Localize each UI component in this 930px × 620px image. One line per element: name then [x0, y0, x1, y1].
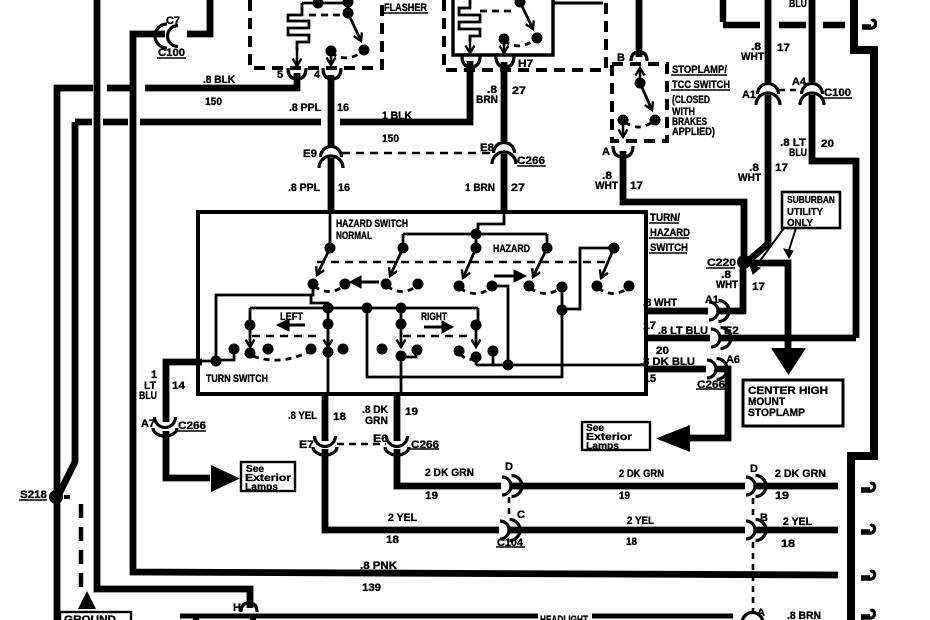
svg-text:ONLY: ONLY: [787, 217, 813, 229]
svg-text:HAZARD: HAZARD: [493, 243, 530, 255]
svg-text:WHT: WHT: [741, 51, 764, 63]
svg-text:BLU: BLU: [789, 0, 807, 10]
svg-text:A: A: [757, 607, 765, 619]
svg-text:B: B: [760, 512, 768, 524]
svg-text:E9: E9: [303, 148, 317, 160]
svg-text:STOPLAMP: STOPLAMP: [748, 407, 805, 419]
svg-text:1 BLK: 1 BLK: [382, 110, 412, 122]
svg-text:18: 18: [333, 411, 346, 423]
svg-text:D: D: [505, 461, 513, 473]
svg-text:16: 16: [337, 102, 349, 114]
svg-text:E2: E2: [724, 325, 739, 337]
svg-text:18: 18: [781, 538, 795, 550]
svg-text:B: B: [617, 52, 625, 64]
svg-text:TURN SWITCH: TURN SWITCH: [206, 373, 268, 385]
svg-text:H7: H7: [518, 58, 533, 70]
svg-text:4: 4: [314, 69, 321, 81]
svg-text:2 YEL: 2 YEL: [783, 516, 812, 528]
svg-text:19: 19: [619, 490, 630, 502]
svg-text:17: 17: [777, 42, 790, 54]
svg-text:17: 17: [643, 320, 656, 332]
svg-text:A7: A7: [141, 418, 155, 430]
svg-text:NORMAL: NORMAL: [336, 230, 372, 242]
svg-text:BLU: BLU: [139, 390, 157, 402]
svg-text:.8 BLK: .8 BLK: [203, 74, 235, 86]
svg-text:WHT: WHT: [595, 180, 618, 192]
svg-text:D: D: [750, 463, 758, 475]
svg-text:E6: E6: [373, 433, 388, 445]
svg-text:16: 16: [338, 182, 350, 194]
svg-text:19: 19: [425, 490, 438, 502]
svg-text:A1: A1: [742, 89, 756, 101]
svg-text:2 DK GRN: 2 DK GRN: [425, 467, 474, 479]
svg-text:Lamps: Lamps: [245, 481, 278, 493]
svg-text:.8 LT BLU: .8 LT BLU: [658, 325, 708, 337]
svg-text:LEFT: LEFT: [280, 311, 303, 323]
svg-text:.8 PPL: .8 PPL: [289, 102, 321, 114]
svg-text:E8: E8: [480, 142, 494, 154]
svg-text:.8 PPL: .8 PPL: [288, 182, 320, 194]
svg-text:Lamps: Lamps: [586, 440, 619, 452]
svg-text:27: 27: [512, 85, 526, 97]
svg-text:E7: E7: [299, 439, 314, 451]
svg-text:GROUND: GROUND: [64, 614, 116, 620]
svg-text:SUBURBAN: SUBURBAN: [787, 194, 835, 206]
svg-text:2 DK GRN: 2 DK GRN: [619, 468, 664, 480]
svg-text:RIGHT: RIGHT: [421, 311, 447, 323]
svg-text:.8 DK BLU: .8 DK BLU: [640, 356, 695, 368]
svg-text:19: 19: [405, 406, 418, 418]
svg-text:A4: A4: [792, 76, 807, 88]
svg-text:17: 17: [752, 281, 765, 293]
svg-text:19: 19: [775, 490, 789, 502]
svg-text:1 BRN: 1 BRN: [465, 182, 495, 194]
svg-text:WHT: WHT: [738, 172, 761, 184]
svg-text:(CLOSED: (CLOSED: [672, 94, 710, 106]
svg-text:17: 17: [775, 162, 788, 174]
svg-text:APPLIED): APPLIED): [672, 126, 715, 138]
svg-text:HEADLIGHT: HEADLIGHT: [540, 614, 588, 620]
svg-text:BRN: BRN: [476, 94, 498, 106]
svg-text:139: 139: [362, 582, 381, 594]
svg-text:.8 YEL: .8 YEL: [288, 410, 317, 422]
svg-text:BLU: BLU: [789, 147, 807, 159]
svg-text:.8 WHT: .8 WHT: [643, 297, 677, 309]
svg-text:C7: C7: [166, 15, 180, 27]
svg-text:18: 18: [626, 536, 637, 548]
svg-text:2 YEL: 2 YEL: [627, 515, 654, 527]
svg-text:17: 17: [630, 180, 643, 192]
svg-text:15: 15: [644, 373, 656, 385]
svg-text:C: C: [517, 509, 525, 521]
svg-text:150: 150: [205, 96, 222, 108]
svg-text:2 YEL: 2 YEL: [388, 512, 417, 524]
svg-text:A: A: [602, 146, 610, 158]
svg-text:HAZARD SWITCH: HAZARD SWITCH: [336, 218, 408, 230]
svg-text:5: 5: [277, 69, 283, 81]
svg-text:2 DK GRN: 2 DK GRN: [775, 468, 826, 480]
svg-text:150: 150: [382, 133, 399, 145]
svg-text:.8 PNK: .8 PNK: [360, 560, 397, 572]
svg-text:GRN: GRN: [365, 415, 388, 427]
svg-text:18: 18: [386, 534, 399, 546]
svg-text:H: H: [233, 602, 241, 614]
svg-text:14: 14: [172, 380, 186, 392]
svg-text:27: 27: [511, 182, 525, 194]
svg-text:WHT: WHT: [716, 279, 738, 291]
svg-text:.8 BRN: .8 BRN: [787, 610, 821, 620]
svg-text:A1: A1: [705, 294, 719, 306]
svg-text:20: 20: [821, 138, 834, 150]
svg-text:A6: A6: [726, 354, 740, 366]
